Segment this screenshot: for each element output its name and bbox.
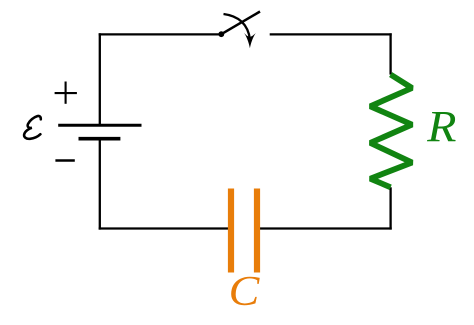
label: plus sign of battery bbox=[55, 82, 77, 104]
capacitor C: left plate bbox=[228, 189, 234, 273]
svg-text:R: R bbox=[426, 102, 456, 151]
wire bottom-left segment bbox=[99, 227, 229, 229]
label: EMF script-E symbol bbox=[24, 116, 41, 139]
battery EMF source: short negative plate bbox=[79, 137, 121, 141]
wire top-right segment bbox=[270, 33, 392, 35]
switch S: arrowhead bbox=[244, 33, 256, 48]
wire top-left segment bbox=[99, 33, 222, 35]
wire left vertical upper bbox=[99, 33, 101, 125]
resistor R: green zigzag bbox=[370, 75, 412, 188]
capacitor C: right plate bbox=[254, 189, 260, 273]
wire right vertical lower bbox=[389, 187, 391, 229]
svg-text:C: C bbox=[229, 268, 260, 315]
wire bottom-right segment bbox=[260, 227, 392, 229]
switch S: left contact dot bbox=[218, 31, 224, 37]
battery EMF source: long positive plate bbox=[58, 124, 141, 127]
switch S: open blade bbox=[221, 12, 260, 35]
switch S: closing-direction arc bbox=[224, 14, 251, 40]
label: minus sign of battery bbox=[55, 159, 74, 161]
wire left vertical lower bbox=[99, 139, 101, 230]
wire right vertical upper bbox=[389, 33, 391, 74]
